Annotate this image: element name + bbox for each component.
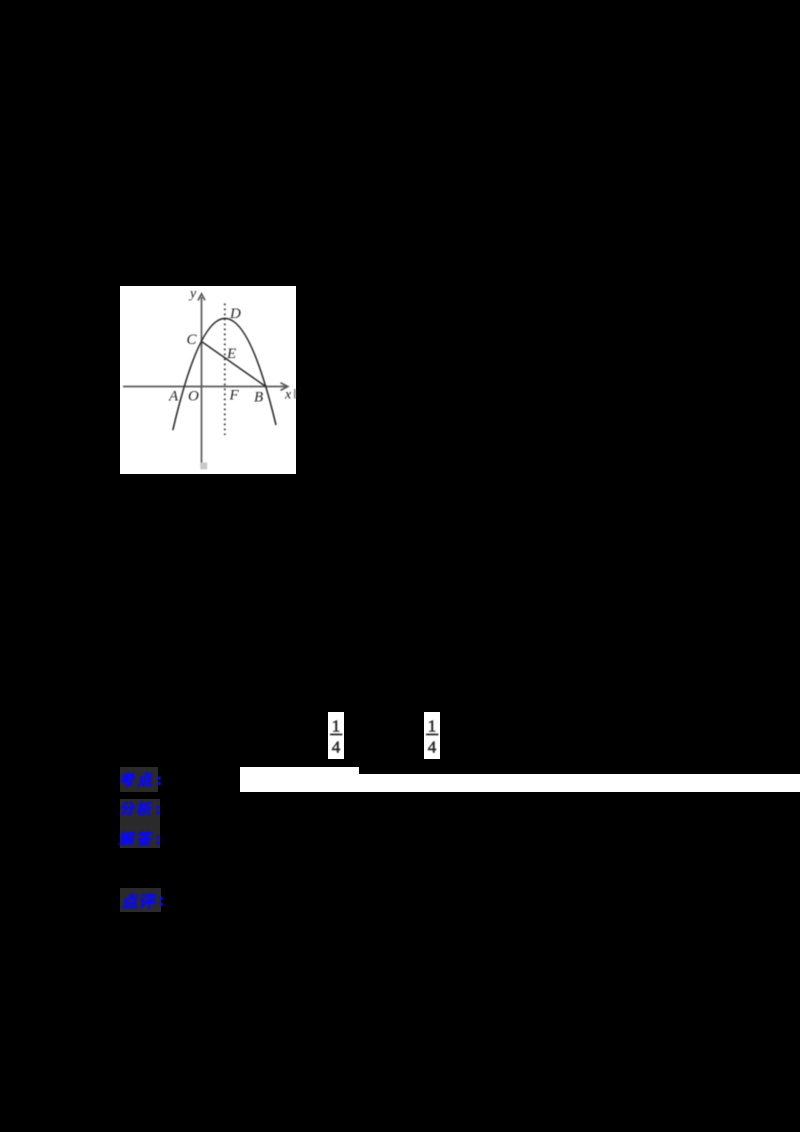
label DianPing bg (120, 888, 161, 912)
svg-text:A: A (168, 389, 179, 405)
svg-text:B: B (254, 390, 263, 406)
svg-text:1: 1 (332, 716, 341, 735)
right-edge artifact tick (294, 389, 296, 399)
axis of symmetry (dotted) (224, 304, 226, 436)
gray handle square at bottom of y-axis (200, 463, 207, 470)
label JieDa text (117, 828, 167, 848)
svg-text:F: F (229, 388, 240, 404)
svg-text:4: 4 (332, 738, 341, 757)
y-axis (198, 294, 205, 463)
svg-text:4: 4 (428, 738, 437, 757)
parabola (173, 318, 276, 430)
x-axis (123, 383, 288, 391)
label KaoDian bg (120, 767, 158, 792)
label DianPing text (119, 887, 171, 911)
line CB (202, 342, 266, 387)
fraction 1/4 (first) (328, 712, 344, 759)
label KaoDian text (117, 769, 167, 789)
figure: parabola coordinate diagram (120, 286, 296, 474)
svg-text:E: E (226, 346, 236, 362)
svg-text:D: D (229, 306, 241, 322)
svg-text:O: O (188, 389, 199, 405)
label FenXi text (117, 798, 167, 818)
white strip right (359, 774, 800, 792)
fraction 1/4 (second) (424, 712, 440, 759)
svg-text:x: x (284, 388, 292, 403)
label FenXi + JieDa bg (120, 799, 160, 848)
svg-text:1: 1 (428, 716, 437, 735)
white strip left (taller) (240, 767, 359, 792)
svg-text:C: C (187, 332, 198, 348)
svg-text:y: y (188, 287, 197, 302)
